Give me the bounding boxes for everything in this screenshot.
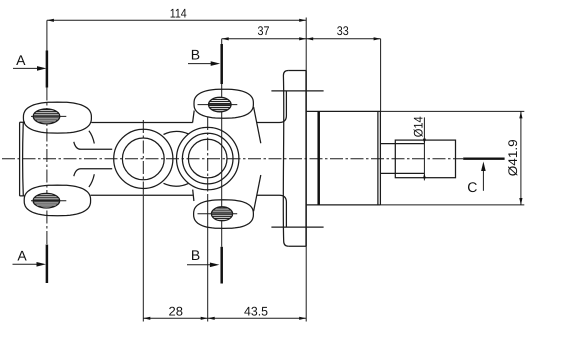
vertical center line circle 1 / ext of dim 28 bbox=[142, 120, 144, 196]
svg-text:43.5: 43.5 bbox=[244, 305, 268, 319]
top ear 2 hole (hatched) bbox=[209, 97, 232, 112]
flange bottom edge bbox=[289, 245, 306, 247]
flange mounting lug line bottom bbox=[271, 226, 323, 228]
dim dia41.9 line bbox=[520, 111, 522, 205]
barrel thick left band bbox=[317, 111, 320, 204]
rod end fitting bbox=[395, 140, 455, 178]
section arrow C (points up to axis) bbox=[482, 168, 484, 191]
top-left hole center line bbox=[31, 115, 66, 117]
ear1 right side slant top bbox=[89, 131, 94, 144]
dim 37 arrowheads bbox=[222, 37, 229, 40]
flange mounting lug line top bbox=[271, 90, 323, 92]
dim 28 arrowheads bbox=[143, 317, 150, 320]
section A thick mark top bbox=[46, 51, 49, 88]
barrel top edge bbox=[306, 110, 381, 112]
section arrow B top bbox=[188, 63, 214, 65]
top ear 2 left side bbox=[193, 111, 195, 123]
dimension 114 line bbox=[47, 19, 306, 21]
bottom-left mounting ear boss bbox=[24, 185, 90, 216]
bottom-left hole center line bbox=[31, 200, 66, 202]
bottom ear 2 hole center line bbox=[198, 213, 238, 215]
port circle 2 middle bbox=[182, 133, 233, 184]
port boss circle 1 outer bbox=[114, 129, 173, 188]
cylinder left end cap bbox=[20, 122, 25, 196]
svg-text:B: B bbox=[191, 46, 200, 62]
bottom ear 2 boss bbox=[194, 200, 254, 229]
neck bottom bbox=[74, 169, 112, 177]
barrel bottom edge bbox=[306, 204, 381, 206]
top ear 2 boss bbox=[194, 89, 253, 118]
body top edge bbox=[91, 92, 286, 123]
web between bosses bottom bbox=[164, 183, 189, 186]
main horizontal center line bbox=[2, 158, 463, 160]
barrel right end double line bbox=[378, 111, 381, 204]
vertical center line through left ears (section A plane) bbox=[46, 20, 48, 50]
vertical center line circle 2 / ext of dims 28,43.5 bbox=[207, 117, 209, 196]
vertical line section B plane bbox=[221, 39, 223, 247]
section arrow A top bbox=[13, 67, 40, 69]
section arrow A bottom bbox=[13, 263, 40, 265]
body bottom edge bbox=[91, 195, 287, 226]
svg-text:C: C bbox=[467, 179, 477, 195]
top ear 2 right slant bbox=[254, 107, 261, 143]
svg-text:33: 33 bbox=[337, 24, 349, 38]
dim dia14 line bbox=[423, 117, 425, 180]
dim 33 arrowheads bbox=[306, 37, 313, 40]
bottom-left ear hole (hatched) bbox=[33, 193, 60, 208]
section arrow B bottom bbox=[187, 264, 213, 266]
dim dia41.9 extension bottom bbox=[380, 204, 524, 206]
port circle 1 inner bbox=[122, 138, 164, 180]
dimension 28 line bbox=[143, 317, 207, 319]
dim 114 arrowheads bbox=[47, 19, 54, 22]
extension line at barrel end x=380.7 bbox=[380, 39, 382, 112]
dim dia41.9 extension top bbox=[380, 110, 524, 112]
port boss circle 2 outer bbox=[177, 127, 239, 189]
section C thick axis segment bbox=[463, 158, 504, 160]
ear1 right side slant bottom bbox=[89, 174, 94, 187]
svg-text:28: 28 bbox=[169, 305, 184, 319]
push rod (dia 14) bbox=[380, 144, 424, 174]
top-left mounting ear boss bbox=[23, 102, 91, 133]
section B thick mark top bbox=[220, 44, 223, 84]
svg-text:114: 114 bbox=[170, 6, 187, 20]
section A thick mark bottom bbox=[46, 245, 49, 284]
bottom ear 2 left side bbox=[193, 190, 194, 201]
section B thick mark bottom bbox=[220, 247, 223, 284]
svg-text:37: 37 bbox=[258, 24, 270, 38]
bottom ear 2 right slant bbox=[254, 175, 261, 211]
svg-text:Ø14: Ø14 bbox=[411, 116, 425, 137]
extension line at flange right face x=306 bbox=[305, 18, 307, 322]
svg-text:A: A bbox=[17, 247, 27, 263]
port circle 2 inner bbox=[188, 139, 227, 178]
flange left face bbox=[283, 71, 288, 247]
svg-text:Ø41.9: Ø41.9 bbox=[506, 139, 520, 176]
flange top edge bbox=[288, 70, 306, 72]
bottom ear 2 hole (hatched) bbox=[211, 207, 232, 221]
svg-text:B: B bbox=[191, 247, 200, 263]
flange right face bbox=[305, 71, 307, 247]
neck between ear boss and port boss, top bbox=[74, 142, 112, 150]
dimension 43.5 line bbox=[208, 317, 307, 319]
svg-text:A: A bbox=[16, 52, 26, 68]
top ear 2 hole center line bbox=[198, 104, 238, 106]
dimension 33 line bbox=[306, 38, 380, 40]
web between bosses top bbox=[164, 131, 189, 134]
top-left ear hole (hatched) bbox=[33, 109, 60, 124]
dim 43.5 arrowheads bbox=[208, 317, 215, 320]
dimension 37 line bbox=[222, 38, 307, 40]
